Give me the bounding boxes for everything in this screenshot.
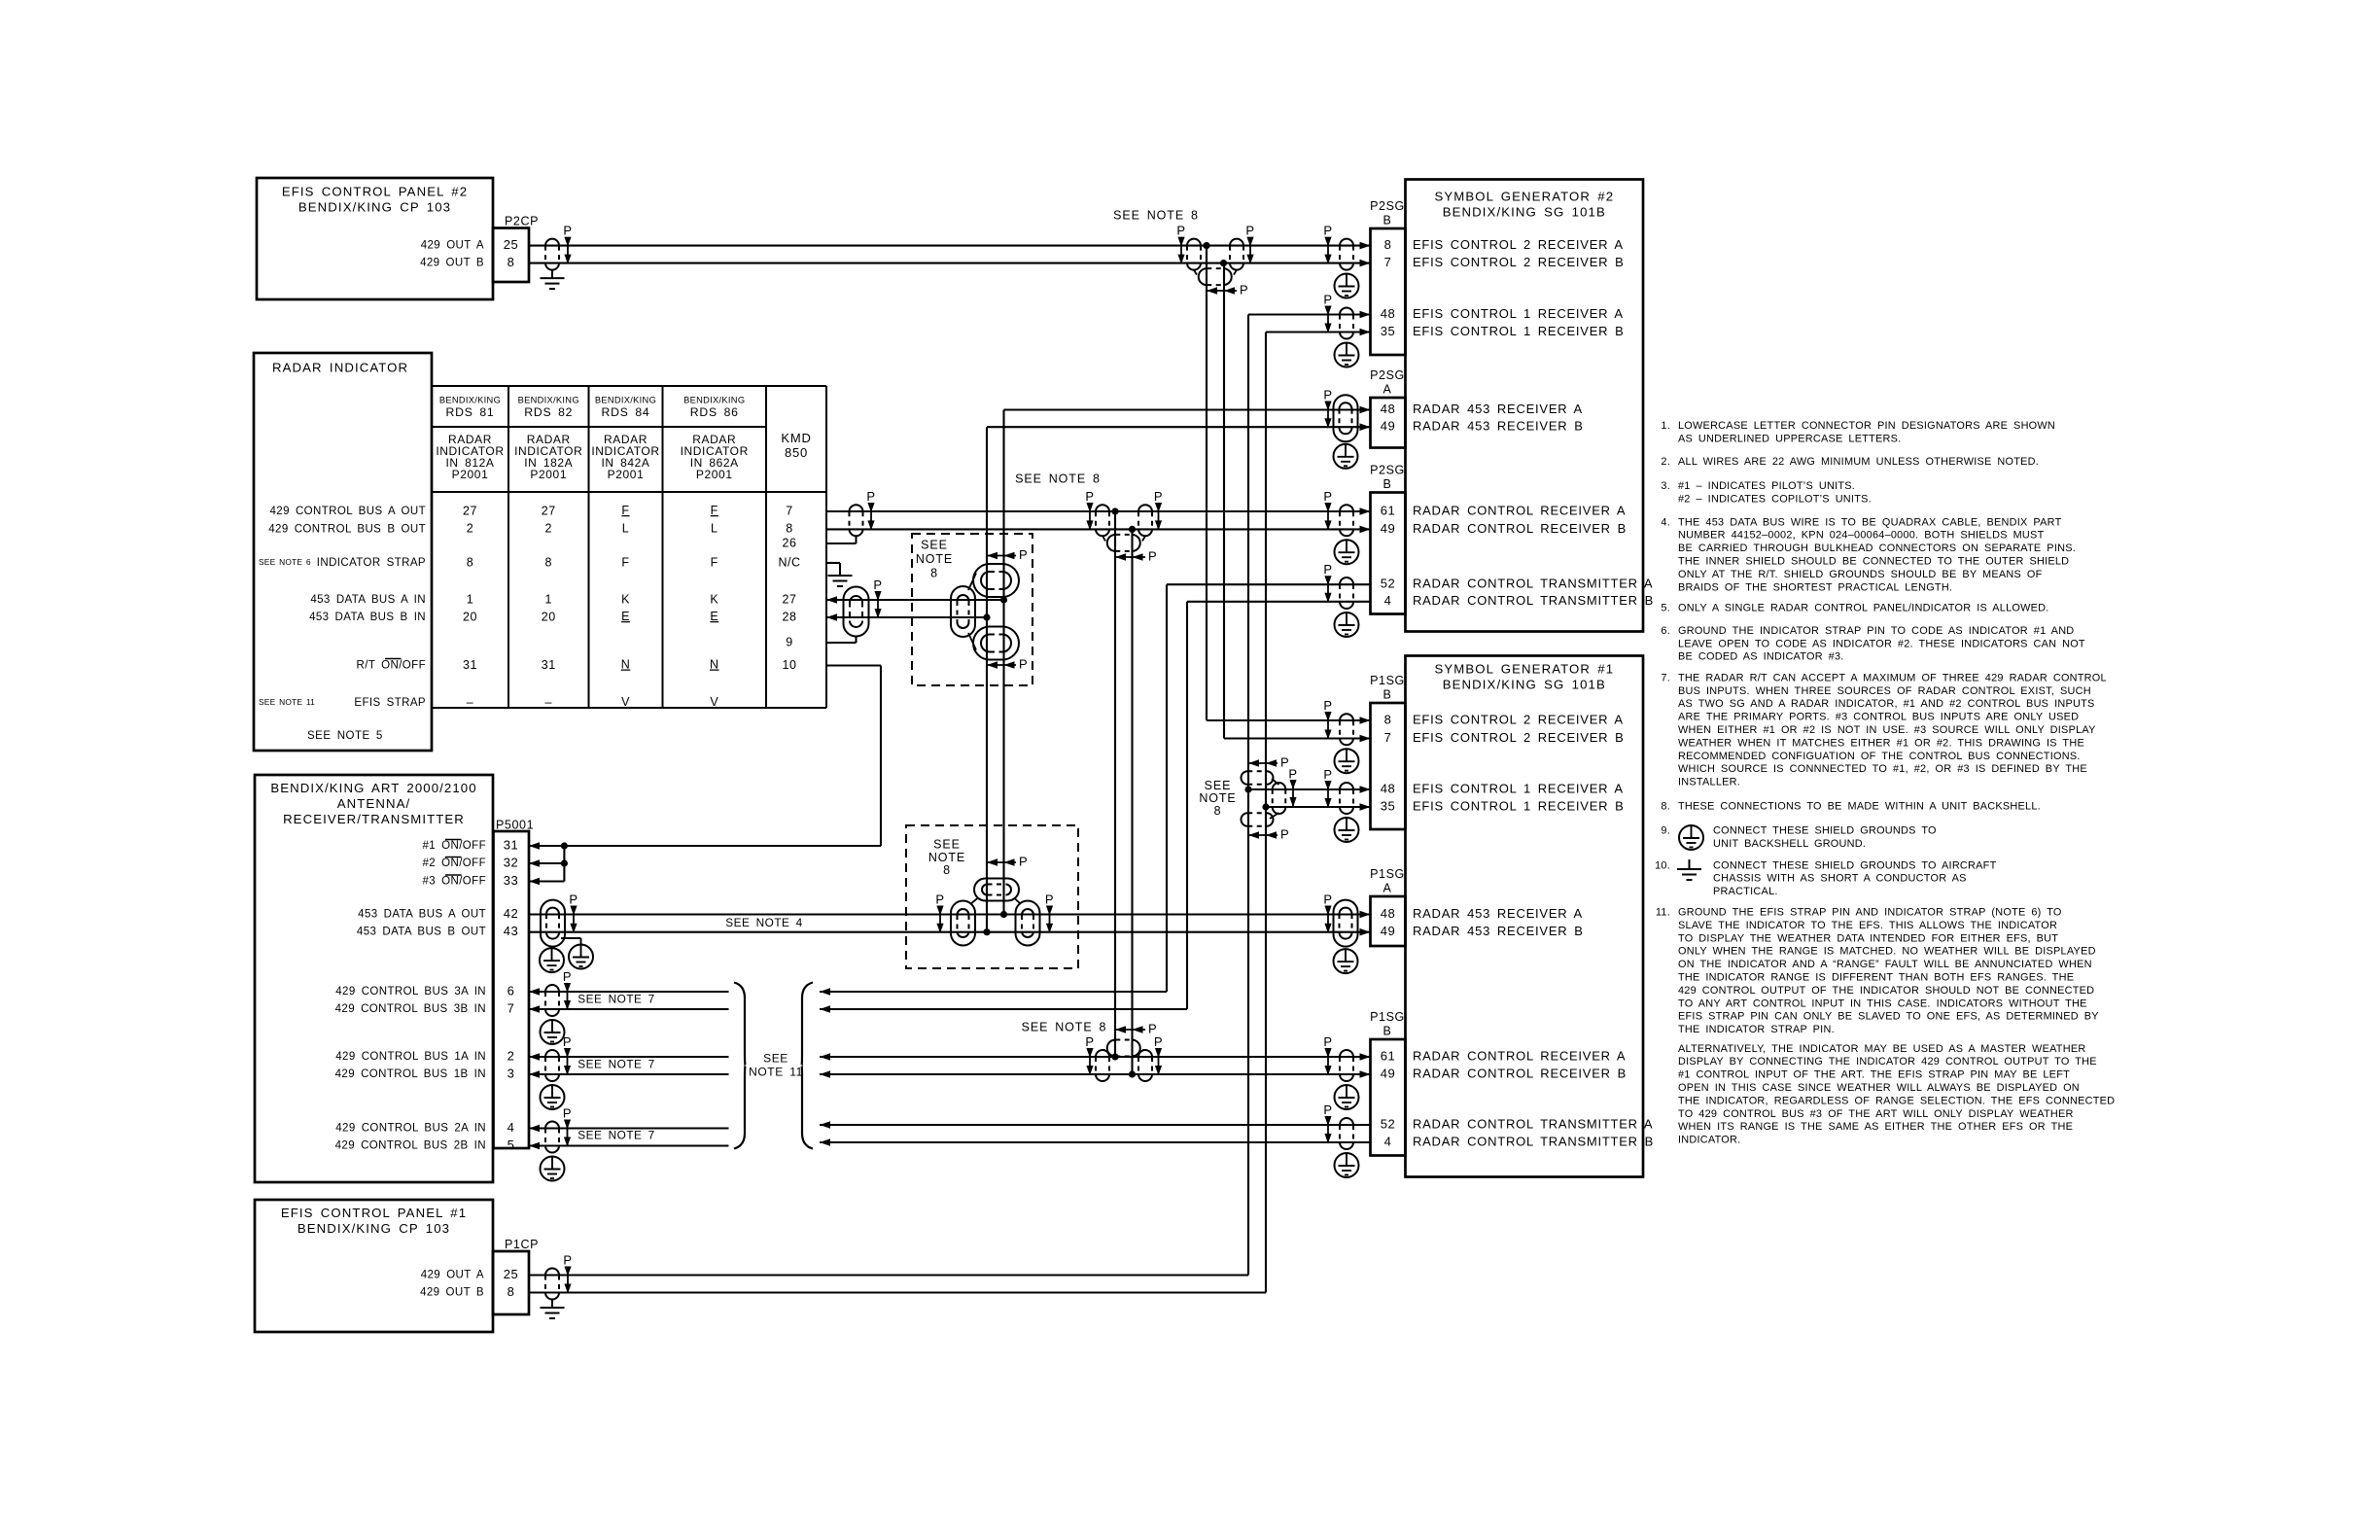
svg-text:27: 27 [463,504,477,517]
svg-text:A: A [1383,382,1392,396]
svg-text:P2CP: P2CP [505,214,539,227]
svg-text:11.: 11. [1656,906,1670,918]
svg-text:P1CP: P1CP [505,1238,539,1251]
svg-text:7.: 7. [1661,672,1670,683]
svg-text:ON THE INDICATOR AND A “RANGE”: ON THE INDICATOR AND A “RANGE” FAULT WIL… [1678,959,2092,970]
svg-text:7: 7 [1384,730,1392,745]
svg-text:7: 7 [507,1000,515,1015]
svg-text:THESE CONNECTIONS TO BE MADE W: THESE CONNECTIONS TO BE MADE WITHIN A UN… [1678,800,2041,812]
svg-text:RADAR 453 RECEIVER A: RADAR 453 RECEIVER A [1413,906,1583,921]
svg-text:26: 26 [783,536,797,549]
svg-text:EFIS CONTROL 1 RECEIVER B: EFIS CONTROL 1 RECEIVER B [1413,324,1625,338]
svg-text:31: 31 [463,658,477,672]
svg-text:SEE: SEE [763,1052,788,1066]
svg-text:P: P [1154,489,1163,504]
svg-text:F: F [711,504,718,517]
svg-text:RDS 82: RDS 82 [524,405,573,419]
svg-text:P: P [1176,224,1185,238]
svg-text:429 CONTROL OUTPUT OF THE INDI: 429 CONTROL OUTPUT OF THE INDICATOR SHOU… [1678,985,2094,997]
svg-text:RADAR CONTROL TRANSMITTER A: RADAR CONTROL TRANSMITTER A [1413,1116,1653,1131]
svg-text:429 CONTROL BUS 3A IN: 429 CONTROL BUS 3A IN [335,986,486,997]
svg-text:WHEN EITHER #1 OR #2 IS NOT IN: WHEN EITHER #1 OR #2 IS NOT IN USE. #3 S… [1678,724,2096,736]
svg-text:20: 20 [542,610,556,623]
svg-text:49: 49 [1381,924,1395,938]
svg-text:P2001: P2001 [530,468,567,481]
svg-text:1: 1 [545,592,552,606]
svg-text:5: 5 [507,1137,515,1152]
svg-text:B: B [1383,477,1392,491]
svg-text:P: P [1288,766,1297,781]
svg-text:5.: 5. [1661,602,1670,613]
svg-text:B: B [1383,687,1392,701]
svg-text:RDS 86: RDS 86 [690,405,739,419]
svg-text:P2001: P2001 [696,468,733,481]
svg-text:P1SG: P1SG [1370,867,1405,881]
svg-text:B: B [1383,213,1392,227]
svg-text:429 OUT A: 429 OUT A [421,1270,484,1281]
svg-text:F: F [621,555,629,569]
svg-text:ONLY AT THE R/T. SHIELD GROUN: ONLY AT THE R/T. SHIELD GROUNDS SHOULD B… [1678,569,2043,580]
svg-text:SYMBOL GENERATOR #1: SYMBOL GENERATOR #1 [1434,661,1614,676]
svg-text:SEE NOTE 8: SEE NOTE 8 [1015,472,1101,485]
svg-text:WHEN ITS RANGE IS THE SAME AS: WHEN ITS RANGE IS THE SAME AS EITHER THE… [1678,1121,2073,1133]
svg-text:CHASSIS WITH AS SHORT A CONDUC: CHASSIS WITH AS SHORT A CONDUCTOR AS [1713,873,1967,885]
svg-text:F: F [711,555,718,569]
svg-text:GROUND THE EFIS STRAP PIN AND: GROUND THE EFIS STRAP PIN AND INDICATOR … [1678,906,2062,918]
svg-text:DISPLAY BY CONNECTING THE INDI: DISPLAY BY CONNECTING THE INDICATOR 429 … [1678,1056,2097,1067]
svg-text:#2 ON/OFF: #2 ON/OFF [422,857,486,869]
svg-text:E: E [621,610,630,623]
svg-text:7: 7 [786,504,792,517]
svg-text:P1SG: P1SG [1370,1010,1405,1024]
svg-text:RADAR CONTROL RECEIVER B: RADAR CONTROL RECEIVER B [1413,1066,1627,1080]
svg-text:#1 – INDICATES PILOT’S UNITS.: #1 – INDICATES PILOT’S UNITS. [1678,480,1855,492]
svg-text:BENDIX/KING ART 2000/2100: BENDIX/KING ART 2000/2100 [270,781,476,795]
svg-text:10.: 10. [1655,859,1670,871]
svg-text:8: 8 [545,555,552,569]
svg-text:V: V [710,695,718,709]
svg-text:4: 4 [1384,593,1392,608]
svg-text:P: P [1280,826,1289,841]
svg-text:N/C: N/C [778,555,800,569]
svg-text:1.: 1. [1661,420,1670,432]
svg-text:P: P [1323,387,1332,402]
svg-text:OPEN IN THIS CASE SINCE WEATHE: OPEN IN THIS CASE SINCE WEATHER WILL ALW… [1678,1082,2080,1094]
svg-text:INDICATOR STRAP: INDICATOR STRAP [317,557,426,569]
svg-text:RADAR CONTROL RECEIVER A: RADAR CONTROL RECEIVER A [1413,1048,1626,1063]
svg-text:BENDIX/KING CP 103: BENDIX/KING CP 103 [297,1221,450,1236]
svg-text:P: P [563,224,572,238]
svg-text:27: 27 [542,504,556,517]
svg-text:BUS INPUTS. WHEN THREE SOURCE: BUS INPUTS. WHEN THREE SOURCES OF RADAR … [1678,685,2091,697]
svg-text:RDS 81: RDS 81 [446,405,495,419]
svg-text:P2001: P2001 [452,468,489,481]
svg-text:RADAR CONTROL TRANSMITTER B: RADAR CONTROL TRANSMITTER B [1413,593,1654,608]
svg-text:ONLY A SINGLE RADAR CONTROL PA: ONLY A SINGLE RADAR CONTROL PANEL/INDICA… [1678,602,2049,613]
svg-text:P: P [1323,1034,1332,1049]
svg-text:4: 4 [1384,1134,1392,1148]
svg-text:B: B [1383,1024,1392,1037]
svg-text:48: 48 [1381,906,1395,921]
svg-text:P: P [1085,489,1094,504]
svg-text:6.: 6. [1661,625,1670,637]
svg-text:SEE: SEE [933,837,961,851]
svg-text:EFIS CONTROL 1 RECEIVER A: EFIS CONTROL 1 RECEIVER A [1413,781,1624,795]
svg-text:SLAVE THE INDICATOR TO THE EFS: SLAVE THE INDICATOR TO THE EFS. THIS ALL… [1678,920,2057,931]
svg-text:P: P [935,892,944,906]
svg-text:SEE: SEE [1205,779,1232,792]
svg-text:RADAR 453 RECEIVER A: RADAR 453 RECEIVER A [1413,402,1583,416]
svg-text:P: P [1323,698,1332,713]
svg-text:P: P [1323,292,1332,306]
svg-text:8: 8 [507,1284,515,1299]
svg-text:SEE: SEE [921,538,948,551]
svg-text:P: P [1019,854,1028,868]
svg-text:8: 8 [507,255,515,269]
svg-text:8: 8 [1384,712,1392,726]
svg-text:P2SG: P2SG [1370,463,1405,476]
svg-text:429 CONTROL BUS 2B IN: 429 CONTROL BUS 2B IN [335,1140,486,1152]
svg-text:850: 850 [785,445,808,460]
svg-text:1: 1 [467,592,473,606]
svg-text:P: P [1323,1102,1332,1117]
svg-text:49: 49 [1381,1066,1395,1080]
svg-text:NUMBER 44152–0002, KPN 024–000: NUMBER 44152–0002, KPN 024–00064–0000. B… [1678,530,2045,542]
svg-text:P: P [1240,282,1248,297]
svg-text:P1SG: P1SG [1370,674,1405,687]
svg-text:EFIS CONTROL 1 RECEIVER A: EFIS CONTROL 1 RECEIVER A [1413,306,1624,321]
svg-text:P: P [1045,892,1054,906]
svg-text:#2 – INDICATES COPILOT’S UNITS: #2 – INDICATES COPILOT’S UNITS. [1678,493,1872,505]
svg-text:CONNECT THESE SHIELD GROUNDS T: CONNECT THESE SHIELD GROUNDS TO AIRCRAFT [1713,859,1997,871]
svg-text:RECOMMENDED CONFIGUATION OF TH: RECOMMENDED CONFIGUATION OF THE CONTROL … [1678,751,2081,762]
svg-text:27: 27 [783,592,797,606]
svg-text:F: F [621,504,629,517]
svg-text:4: 4 [507,1120,515,1135]
svg-text:THE INDICATOR STRAP PIN.: THE INDICATOR STRAP PIN. [1678,1024,1835,1035]
svg-text:42: 42 [504,906,518,921]
svg-text:P: P [563,1034,572,1049]
svg-text:SEE NOTE 11: SEE NOTE 11 [259,697,315,707]
svg-text:P: P [1323,224,1332,238]
svg-text:8: 8 [943,863,951,877]
svg-text:9: 9 [786,635,792,648]
svg-text:48: 48 [1381,402,1395,416]
svg-text:EFIS STRAP: EFIS STRAP [354,697,426,709]
svg-text:8: 8 [786,522,792,536]
svg-text:429 CONTROL BUS 3B IN: 429 CONTROL BUS 3B IN [335,1003,486,1015]
svg-text:429 OUT B: 429 OUT B [420,1287,484,1299]
svg-text:V: V [621,695,630,709]
svg-text:R/T ON/OFF: R/T ON/OFF [357,660,426,672]
svg-text:SEE NOTE 7: SEE NOTE 7 [577,993,655,1006]
svg-text:SEE NOTE 7: SEE NOTE 7 [577,1058,655,1071]
svg-text:BENDIX/KING: BENDIX/KING [518,395,579,404]
svg-text:6: 6 [507,983,515,997]
svg-text:EFIS CONTROL PANEL #1: EFIS CONTROL PANEL #1 [281,1206,467,1220]
svg-text:453 DATA BUS A IN: 453 DATA BUS A IN [310,594,426,606]
svg-text:–: – [545,695,552,709]
svg-text:31: 31 [542,658,556,672]
svg-text:SEE NOTE 5: SEE NOTE 5 [307,730,383,742]
svg-text:ALTERNATIVELY, THE INDICATOR M: ALTERNATIVELY, THE INDICATOR MAY BE USED… [1678,1043,2085,1055]
svg-text:28: 28 [783,610,797,623]
svg-text:P: P [1245,224,1254,238]
svg-text:4.: 4. [1661,516,1670,528]
svg-text:2.: 2. [1661,456,1670,468]
svg-text:BENDIX/KING: BENDIX/KING [595,395,656,404]
svg-text:3: 3 [507,1066,515,1080]
svg-text:25: 25 [504,237,518,252]
svg-text:AS TWO SG AND A RADAR INDICATO: AS TWO SG AND A RADAR INDICATOR, #1 AND … [1678,698,2095,710]
svg-text:429 OUT B: 429 OUT B [420,258,484,269]
svg-text:ALL WIRES ARE 22 AWG MINIMUM U: ALL WIRES ARE 22 AWG MINIMUM UNLESS OTHE… [1678,456,2039,468]
svg-text:P2001: P2001 [608,468,645,481]
svg-text:BENDIX/KING: BENDIX/KING [439,395,501,404]
svg-text:429 CONTROL BUS 2A IN: 429 CONTROL BUS 2A IN [335,1123,486,1135]
svg-text:LEAVE OPEN TO CODE AS INDICATO: LEAVE OPEN TO CODE AS INDICATOR #2. THES… [1678,638,2085,649]
svg-text:429 OUT A: 429 OUT A [421,240,484,252]
svg-text:TO ANY ART CONTROL INPUT IN TH: TO ANY ART CONTROL INPUT IN THIS CASE. I… [1678,997,2087,1009]
svg-text:ANTENNA/: ANTENNA/ [337,796,410,811]
svg-text:P2SG: P2SG [1370,199,1405,213]
svg-text:P: P [873,577,882,592]
svg-text:P: P [1148,548,1157,563]
svg-text:NOTE: NOTE [928,851,965,864]
svg-text:49: 49 [1381,419,1395,434]
svg-text:8: 8 [1384,237,1392,252]
svg-text:BENDIX/KING SG 101B: BENDIX/KING SG 101B [1443,677,1606,691]
svg-text:P: P [1019,547,1028,562]
svg-text:INDICATOR.: INDICATOR. [1678,1135,1740,1146]
svg-text:RADAR 453 RECEIVER B: RADAR 453 RECEIVER B [1413,419,1584,434]
svg-text:SEE NOTE 6: SEE NOTE 6 [259,557,311,567]
svg-text:429 CONTROL BUS B OUT: 429 CONTROL BUS B OUT [268,523,426,535]
svg-text:P: P [1323,562,1332,577]
svg-text:RDS 84: RDS 84 [602,405,650,419]
svg-text:BENDIX/KING SG 101B: BENDIX/KING SG 101B [1443,204,1606,219]
svg-text:P: P [563,969,572,984]
svg-text:NOTE: NOTE [916,552,953,566]
svg-text:P: P [1323,489,1332,504]
svg-text:EFIS CONTROL 2 RECEIVER A: EFIS CONTROL 2 RECEIVER A [1413,712,1624,726]
svg-text:EFIS CONTROL 2 RECEIVER B: EFIS CONTROL 2 RECEIVER B [1413,730,1625,745]
svg-text:429 CONTROL BUS 1A IN: 429 CONTROL BUS 1A IN [335,1051,486,1063]
svg-text:8: 8 [467,555,473,569]
svg-text:61: 61 [1381,1048,1395,1063]
svg-text:429 CONTROL BUS A OUT: 429 CONTROL BUS A OUT [270,506,427,517]
svg-text:E: E [710,610,718,623]
svg-text:WEATHER WHEN IT MATCHES EITHER: WEATHER WHEN IT MATCHES EITHER #1 OR #2.… [1678,737,2084,749]
svg-text:429 CONTROL BUS 1B IN: 429 CONTROL BUS 1B IN [335,1068,486,1080]
svg-text:EFIS CONTROL PANEL #2: EFIS CONTROL PANEL #2 [282,184,468,198]
svg-text:EFIS CONTROL 2 RECEIVER A: EFIS CONTROL 2 RECEIVER A [1413,237,1624,252]
svg-text:THE 453 DATA BUS WIRE IS TO BE: THE 453 DATA BUS WIRE IS TO BE QUADRAX C… [1678,516,2062,528]
svg-text:SEE NOTE 4: SEE NOTE 4 [725,916,803,929]
svg-text:TO 429 CONTROL BUS #3 OF THE A: TO 429 CONTROL BUS #3 OF THE ART WILL ON… [1678,1108,2074,1120]
svg-text:BRAIDS OF THE SHORTEST PRACTIC: BRAIDS OF THE SHORTEST PRACTICAL LENGTH. [1678,581,1952,593]
svg-text:NOTE 11: NOTE 11 [749,1066,803,1079]
svg-text:RADAR CONTROL RECEIVER B: RADAR CONTROL RECEIVER B [1413,521,1627,536]
svg-text:52: 52 [1381,577,1395,591]
svg-text:P: P [866,489,875,504]
svg-text:P2SG: P2SG [1370,368,1405,382]
svg-text:35: 35 [1381,798,1395,813]
svg-text:453 DATA BUS A OUT: 453 DATA BUS A OUT [358,909,486,921]
svg-text:P: P [1148,1021,1157,1035]
svg-text:P: P [563,1105,572,1120]
svg-text:453 DATA BUS B OUT: 453 DATA BUS B OUT [357,927,486,938]
svg-text:RECEIVER/TRANSMITTER: RECEIVER/TRANSMITTER [283,812,465,826]
svg-text:SEE NOTE 7: SEE NOTE 7 [577,1129,655,1142]
svg-text:NOTE: NOTE [1199,791,1236,805]
svg-text:3.: 3. [1661,480,1670,492]
svg-text:2: 2 [545,522,552,536]
svg-text:THE INNER SHIELD SHOULD BE CON: THE INNER SHIELD SHOULD BE CONNECTED TO … [1678,555,2069,567]
svg-text:UNIT BACKSHELL GROUND.: UNIT BACKSHELL GROUND. [1713,838,1866,850]
svg-text:P5001: P5001 [496,818,534,831]
svg-text:L: L [711,522,717,536]
svg-text:K: K [710,592,718,606]
svg-text:9.: 9. [1661,824,1670,836]
svg-text:INSTALLER.: INSTALLER. [1678,777,1740,788]
svg-text:52: 52 [1381,1116,1395,1131]
svg-text:L: L [622,522,629,536]
svg-text:LOWERCASE LETTER CONNECTOR PIN: LOWERCASE LETTER CONNECTOR PIN DESIGNATO… [1678,420,2055,432]
svg-text:RADAR CONTROL TRANSMITTER B: RADAR CONTROL TRANSMITTER B [1413,1134,1654,1148]
svg-text:48: 48 [1381,781,1395,795]
svg-text:EFIS STRAP PIN CAN ONLY BE SLA: EFIS STRAP PIN CAN ONLY BE SLAVED TO ONE… [1678,1011,2099,1023]
svg-text:#1 ON/OFF: #1 ON/OFF [422,840,486,852]
svg-text:K: K [621,592,630,606]
svg-text:P: P [563,1252,572,1267]
svg-text:P: P [1323,892,1332,906]
svg-text:32: 32 [504,855,518,869]
svg-text:2: 2 [467,522,473,536]
svg-text:KMD: KMD [781,431,811,445]
svg-text:SYMBOL GENERATOR #2: SYMBOL GENERATOR #2 [1434,189,1614,203]
svg-text:SEE NOTE 8: SEE NOTE 8 [1022,1020,1107,1033]
svg-text:WHICH SOURCE IS CONNNECTED TO: WHICH SOURCE IS CONNNECTED TO #1, #2, OR… [1678,763,2087,775]
svg-text:EFIS CONTROL 2 RECEIVER B: EFIS CONTROL 2 RECEIVER B [1413,255,1625,269]
svg-text:N: N [710,658,719,672]
svg-text:BE CODED AS INDICATOR #3.: BE CODED AS INDICATOR #3. [1678,651,1844,663]
svg-text:RADAR 453 RECEIVER B: RADAR 453 RECEIVER B [1413,924,1584,938]
svg-text:THE RADAR R/T CAN ACCEPT A MAX: THE RADAR R/T CAN ACCEPT A MAXIMUM OF TH… [1678,672,2107,683]
svg-text:SEE NOTE 8: SEE NOTE 8 [1113,208,1199,222]
svg-text:GROUND THE INDICATOR STRAP PIN: GROUND THE INDICATOR STRAP PIN TO CODE A… [1678,625,2074,637]
svg-text:2: 2 [507,1048,515,1063]
svg-text:P: P [1019,656,1028,671]
svg-text:7: 7 [1384,255,1392,269]
svg-text:BE CARRIED THROUGH BULKHEAD CO: BE CARRIED THROUGH BULKHEAD CONNECTORS O… [1678,542,2076,554]
svg-text:P: P [1085,1034,1094,1049]
svg-text:8: 8 [1214,804,1222,818]
svg-text:25: 25 [504,1267,518,1281]
svg-text:CONNECT THESE SHIELD GROUNDS T: CONNECT THESE SHIELD GROUNDS TO [1713,824,1937,836]
svg-text:#3 ON/OFF: #3 ON/OFF [422,876,486,888]
svg-text:THE INDICATOR RANGE IS DIFFERE: THE INDICATOR RANGE IS DIFFERENT THAN BO… [1678,971,2074,983]
svg-text:8: 8 [930,566,938,579]
svg-text:453 DATA BUS B IN: 453 DATA BUS B IN [309,612,426,623]
svg-text:48: 48 [1381,306,1395,321]
svg-text:8.: 8. [1661,800,1670,812]
svg-text:TO DISPLAY THE WEATHER DATA IN: TO DISPLAY THE WEATHER DATA INTENDED FOR… [1678,932,2058,944]
svg-text:35: 35 [1381,324,1395,338]
svg-text:33: 33 [504,873,518,888]
svg-text:PRACTICAL.: PRACTICAL. [1713,886,1778,897]
svg-text:A: A [1383,881,1392,894]
svg-text:ARE THE PRIMARY PORTS. #3 CON: ARE THE PRIMARY PORTS. #3 CONTROL BUS IN… [1678,712,2079,723]
svg-text:AS UNDERLINED UPPERCASE LETTER: AS UNDERLINED UPPERCASE LETTERS. [1678,433,1901,444]
svg-text:EFIS CONTROL 1 RECEIVER B: EFIS CONTROL 1 RECEIVER B [1413,798,1625,813]
svg-text:ONLY WHEN THE RANGE IS MATCHED: ONLY WHEN THE RANGE IS MATCHED. NO WEATH… [1678,946,2096,958]
svg-text:20: 20 [463,610,477,623]
svg-text:49: 49 [1381,521,1395,536]
svg-text:–: – [467,695,473,709]
svg-text:P: P [569,892,577,906]
svg-text:RADAR INDICATOR: RADAR INDICATOR [272,360,408,374]
svg-text:10: 10 [783,658,797,672]
svg-text:#1 CONTROL INPUT OF THE ART.: #1 CONTROL INPUT OF THE ART. THE EFIS ST… [1678,1069,2070,1081]
svg-text:43: 43 [504,924,518,938]
svg-text:P: P [1323,767,1332,782]
svg-text:P: P [1154,1034,1163,1049]
svg-text:61: 61 [1381,503,1395,517]
svg-text:31: 31 [504,837,518,852]
svg-text:N: N [621,658,631,672]
svg-text:THE INDICATOR, REGARDLESS OF R: THE INDICATOR, REGARDLESS OF RANGE SELEC… [1678,1095,2115,1106]
svg-text:BENDIX/KING CP 103: BENDIX/KING CP 103 [298,199,451,214]
svg-text:RADAR CONTROL TRANSMITTER A: RADAR CONTROL TRANSMITTER A [1413,577,1653,591]
svg-text:BENDIX/KING: BENDIX/KING [683,395,745,404]
svg-text:RADAR CONTROL RECEIVER A: RADAR CONTROL RECEIVER A [1413,503,1626,517]
